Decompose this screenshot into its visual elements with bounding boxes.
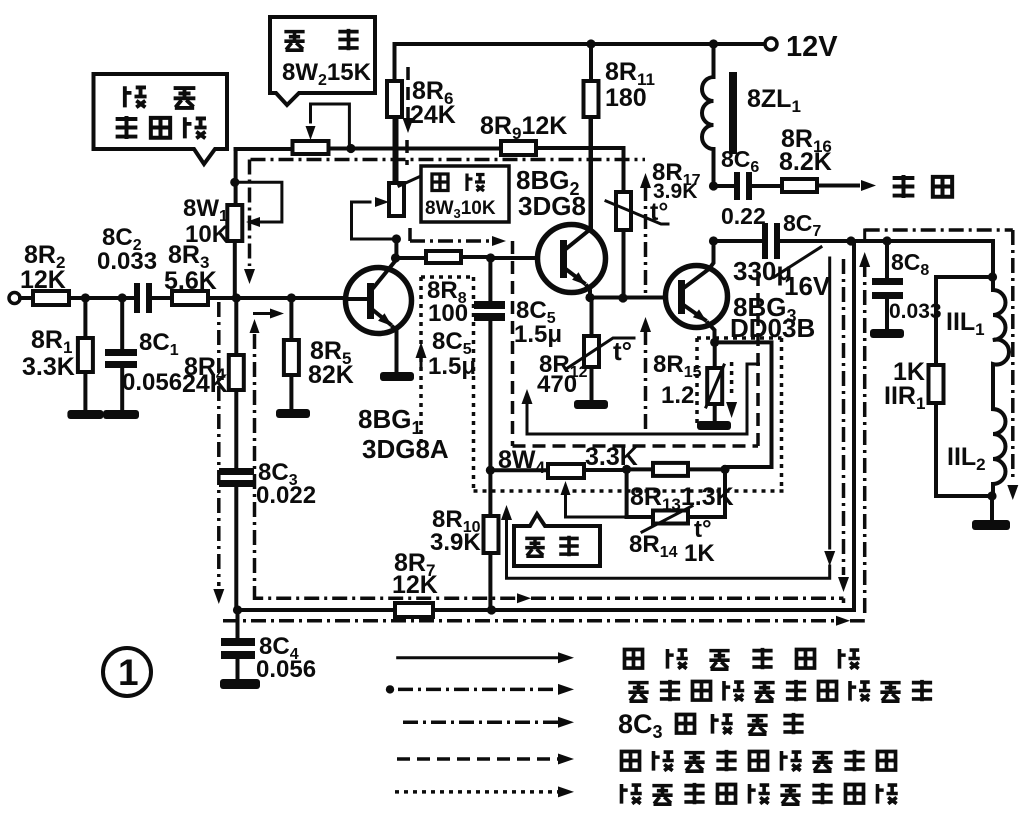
node 8BG3 collector/8C7: [709, 236, 718, 245]
svg-text:1K: 1K: [684, 540, 715, 567]
svg-text:8R912K: 8R912K: [480, 112, 567, 143]
wiper 8W1: [235, 182, 282, 222]
inductor IIL2: [993, 409, 1005, 496]
capacitor 8C1 0.056: [120, 298, 124, 352]
wire to IIR1: [936, 277, 993, 365]
wire dotted discharge loop around 8R15: [697, 338, 782, 491]
svg-text:8.2K: 8.2K: [779, 148, 832, 176]
wire solid linearity loop inner box: [527, 364, 759, 434]
wire IIR1 bottom to IIL2 bottom: [936, 403, 993, 496]
wire 8W3 to 8R8 node: [394, 239, 398, 258]
svg-text:0.056: 0.056: [256, 656, 316, 683]
capacitor 8C8 0.033: [885, 241, 889, 281]
wire main line to 8BG1 base: [208, 296, 346, 300]
node 8BG2 emitter / 8R12: [585, 293, 594, 302]
wire to blanking output: [817, 184, 858, 188]
resistor 8R7 12K on bottom bus: [238, 608, 855, 612]
node 8BG1 collector: [391, 253, 400, 262]
svg-text:82K: 82K: [308, 361, 354, 389]
resistor 8R13 1.3K: [627, 467, 725, 471]
node 8W2 right: [346, 144, 355, 153]
wire dash-dot top right to IIL2: [863, 230, 866, 241]
svg-text:1.5μ: 1.5μ: [514, 321, 562, 348]
ground 8R1: [67, 410, 103, 419]
resistor 8R11: [589, 44, 593, 232]
inductor IIL1: [993, 277, 1009, 409]
node IIL1 top / IIR1 wire: [988, 272, 997, 281]
svg-text:3.3K: 3.3K: [22, 353, 75, 381]
svg-text:24K: 24K: [182, 370, 228, 398]
svg-text:8W215K: 8W215K: [282, 59, 372, 89]
wire solid linearity loop right vertical with arrow: [828, 258, 831, 548]
wire top supply rail: [395, 42, 766, 46]
svg-text:t°: t°: [613, 336, 632, 366]
svg-text:12K: 12K: [20, 266, 66, 294]
wire 8BG3 emitter loop to 8R13 right node: [715, 342, 772, 467]
node 8R8/8C5/8BG2 base: [486, 253, 495, 262]
wire input to 8R2: [20, 296, 33, 300]
wire dashed charge loop bottom/right: [513, 270, 759, 446]
resistor 8R16 8.2K: [782, 179, 817, 192]
wire 8R13/8R14 left tie: [625, 469, 629, 517]
wire 8R2 to 8C2: [69, 296, 136, 300]
inductor 8ZL1: [712, 44, 716, 77]
resistor 8R10 3.9K: [488, 470, 492, 610]
wire dash-dot loop vertical x843: [842, 259, 846, 575]
arrow dotted loop up: [416, 342, 427, 358]
svg-text:0.056: 0.056: [122, 369, 182, 396]
ground IIL2: [990, 496, 994, 520]
wire dotted discharge loop box around labels: [421, 277, 784, 491]
wire 8R9 to 8R17: [536, 148, 624, 192]
capacitor 8C2 0.033: [134, 283, 140, 313]
wire bottom bus right corner up: [852, 241, 856, 610]
svg-text:1: 1: [118, 652, 139, 693]
svg-text:1.2: 1.2: [661, 382, 694, 409]
node 8W4 left: [486, 466, 495, 475]
wire dash-dot loop vertical x864 with up arrow: [859, 252, 870, 267]
svg-text:16V: 16V: [784, 271, 831, 301]
node 8R13 right: [720, 465, 729, 474]
resistor 8R5 82K: [289, 298, 293, 410]
wire to 8BG2 base: [491, 256, 560, 260]
legend row2 dash-dot: multivibrator positive feedback loop: [386, 685, 394, 693]
terminal 12V: [765, 38, 777, 50]
svg-text:12K: 12K: [392, 571, 438, 599]
svg-text:t°: t°: [694, 516, 712, 543]
node 8W1 top: [230, 178, 239, 187]
wire dash-dot left multivibrator bus: [217, 302, 221, 586]
resistor 8R1 3.3K: [83, 298, 87, 411]
wire right branch down from 8C7 line: [991, 241, 995, 277]
resistor 8R6: [393, 44, 397, 183]
resistor 8R14 1K thermistor: [627, 515, 725, 519]
wiper 8W2 loop: [311, 104, 350, 149]
svg-text:1.5μ: 1.5μ: [428, 353, 476, 380]
wire dash-dot corner down to main line: [248, 160, 252, 267]
node 8R10 bottom: [487, 605, 496, 614]
wiper 8W4: [566, 494, 627, 517]
ground 8C1: [103, 410, 139, 419]
wire dash-dot bottom bus row3: [223, 619, 836, 623]
node 8BG3 emitter: [710, 338, 719, 347]
wire dash-dot 8C3-discharge left vertical: [253, 334, 257, 592]
callout box field-freq 8W2 15K: [270, 17, 375, 105]
legend row1 solid: linearity correction loop: [398, 656, 558, 659]
node 8R17 bottom: [618, 293, 627, 302]
svg-text:180: 180: [605, 84, 647, 112]
legend row4 dashed: sawtooth charge loop: [397, 757, 558, 761]
capacitor 8C5 1.5u: [488, 258, 492, 303]
capacitor 8C6 0.22: [714, 184, 736, 188]
resistor 8R8 100: [396, 257, 492, 258]
wire dash-dot multivibrator feedback top: [251, 158, 646, 162]
node bottom bus left: [233, 605, 242, 614]
callout box frame amplitude 8W3 10K: [399, 176, 421, 186]
wire dash-dot bottom bus row2: [255, 592, 517, 598]
resistor 8R3 5.6K: [172, 291, 208, 305]
ground 8R12: [574, 400, 608, 409]
svg-text:0.22: 0.22: [721, 203, 766, 229]
ground 8C8: [870, 329, 904, 338]
resistor 8R9 12K: [501, 141, 536, 155]
wire 8W1 bottom to main line: [233, 241, 237, 298]
label figure number 1: [103, 648, 151, 696]
arrow dotted loop down by 8R15: [730, 362, 734, 398]
legend row3 dash-dot: 8C3 discharge loop: [403, 721, 558, 725]
svg-text:8W310K: 8W310K: [425, 198, 496, 221]
svg-text:3.9K: 3.9K: [430, 529, 481, 556]
transistor 8BG2 3DG8: [538, 225, 606, 293]
ground 8R5: [276, 409, 310, 418]
resistor IIR1 1K: [929, 365, 944, 403]
wiper 8W3: [352, 202, 397, 239]
potentiometer 8W1 10K body: [227, 205, 242, 241]
ground 8R15: [697, 421, 731, 430]
node 8R13 left: [622, 465, 631, 474]
svg-text:10K: 10K: [185, 221, 230, 248]
node 8W3 bottom: [392, 234, 401, 243]
ground 8C4: [220, 679, 260, 689]
capacitor 8C4 0.056: [236, 610, 240, 640]
node IIL2 bottom: [987, 491, 996, 500]
resistor 8R12 470 thermistor: [590, 298, 594, 402]
wire 8W2 left lead down to 8W1: [234, 149, 238, 205]
wire dash-dot right corner up row2: [842, 598, 846, 603]
node 8R5 junction: [287, 293, 296, 302]
wire 8C2 to 8R3: [152, 296, 172, 300]
svg-text:24K: 24K: [410, 101, 456, 129]
potentiometer 8W3 body: [395, 117, 399, 183]
callout box field-freq internal adjust: [94, 74, 228, 164]
wire dash-dot 8C3 discharge vertical: [644, 186, 648, 296]
svg-text:0.022: 0.022: [256, 482, 316, 509]
transistor 8BG3 DD03B: [666, 266, 728, 328]
transistor 8BG1 3DG8A: [346, 268, 412, 334]
svg-text:3DG8: 3DG8: [518, 191, 586, 221]
svg-text:3DG8A: 3DG8A: [362, 434, 449, 464]
wire dash-dot from box to charge path: [408, 228, 412, 241]
capacitor 8C7 330u/16V: [714, 239, 764, 243]
wire 8R13/8R14 right tie: [723, 469, 727, 517]
node 8C7/8C8: [882, 236, 891, 245]
svg-text:0.033: 0.033: [97, 248, 157, 275]
potentiometer 8W4 3.3K: [490, 468, 626, 472]
legend row5 dotted: sawtooth discharge loop: [395, 790, 558, 794]
potentiometer 8W2 body: [293, 141, 329, 154]
resistor 8R4 24K: [234, 298, 238, 468]
node 8W1/8R4 junction: [232, 293, 241, 302]
svg-text:t°: t°: [650, 198, 668, 226]
svg-text:470: 470: [537, 371, 577, 398]
node rail/8R11: [586, 39, 595, 48]
capacitor 8C3 0.022: [219, 468, 254, 475]
callout box linearity: [514, 514, 600, 566]
node 8C1: [118, 293, 127, 302]
node 8R1: [81, 293, 90, 302]
wire dashed charge-loop beside 8R6: [406, 67, 410, 118]
wire 8W2 to 8R9: [351, 147, 501, 151]
svg-text:5.6K: 5.6K: [164, 267, 217, 295]
wire 8BG2 emitter to 8BG3 base: [590, 296, 666, 300]
svg-text:0.033: 0.033: [889, 300, 942, 323]
terminal input: [9, 293, 20, 304]
ground 8BG1 emitter: [380, 372, 414, 381]
label blanking 消隐: [893, 175, 915, 198]
node rail/8ZL1: [709, 39, 718, 48]
wire 8W2 row: [236, 147, 395, 152]
node 8C7/bus: [846, 236, 855, 245]
svg-text:12V: 12V: [786, 31, 838, 63]
node 8ZL1/8C6: [709, 181, 718, 190]
resistor 8R2 12K: [33, 291, 69, 305]
resistor 8R17 3.9K thermistor: [616, 192, 631, 230]
svg-text:100: 100: [428, 300, 468, 327]
resistor 8R15 1.2: [713, 342, 717, 368]
